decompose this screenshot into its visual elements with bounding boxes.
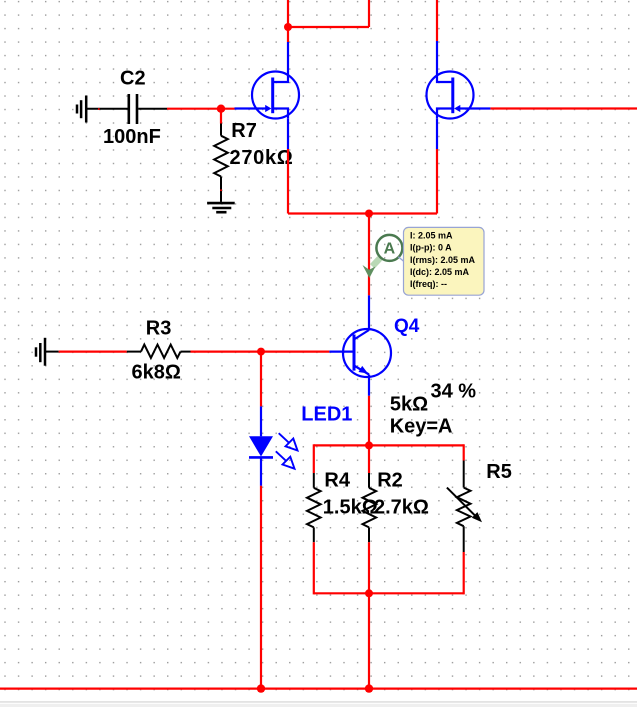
wire: red segment below junction feeding R7 (220, 109, 222, 124)
tooltip probe readout box (404, 227, 485, 295)
svg-text:R2: R2 (377, 469, 403, 491)
resistor R3 (127, 345, 191, 358)
wire: top-right vertical red drop at x=369 (368, 0, 370, 27)
junction at (261,351.6) (257, 348, 265, 356)
diode LED1 (249, 436, 273, 456)
wire: blue collector wire into Q4 (368, 295, 370, 330)
svg-text:C2: C2 (120, 68, 146, 90)
resistor R7 (214, 124, 228, 202)
wire: horizontal red rail joining both sources (288, 212, 437, 214)
capacitor C2 (129, 94, 137, 124)
node: tiny red pin marker on R7 ground stem (220, 189, 222, 191)
wire: top-left vertical red drop to node at (288,27.5) (287, 0, 289, 27)
junction at (288,27.5) (284, 23, 292, 31)
wire: blue cathode wire of LED1 (260, 457, 262, 485)
ground (below R7) (207, 203, 235, 212)
pin: Q4 emitter arrow (359, 366, 369, 374)
tooltip callout pointer (398, 257, 404, 262)
junction at (369,594) (365, 589, 373, 597)
junction at (221,108.7) (217, 105, 225, 113)
wire: blue anode wire of LED1 (260, 406, 262, 436)
svg-text:Key=A: Key=A (390, 415, 453, 437)
svg-text:Q4: Q4 (394, 316, 420, 337)
window edge strip at bottom (0, 701, 637, 702)
svg-text:2.7kΩ: 2.7kΩ (374, 497, 429, 519)
op: right JFET transistor (mirrored) (427, 72, 491, 119)
wire: red wire from left JFET source down to bottom rail (287, 149, 289, 214)
wire: red wire from emitter down to R-box top rail (368, 396, 370, 445)
wire: blue drain wire of left JFET (287, 42, 289, 72)
svg-text:I(freq): --: I(freq): -- (410, 279, 447, 289)
svg-text:LED1: LED1 (301, 403, 352, 425)
svg-text:R4: R4 (324, 469, 350, 491)
ground (input, left of R3) (36, 338, 45, 366)
wire: blue source wire of left JFET going down (287, 119, 289, 149)
wire: red top lead of R2 branch (368, 445, 370, 473)
wire: blue drain wire of right JFET (436, 41, 438, 72)
wire: red wire from base node down to LED1 (260, 352, 262, 407)
wire: bottom horizontal rail (0, 687, 637, 689)
svg-text:I(dc): 2.05 mA: I(dc): 2.05 mA (410, 267, 470, 277)
wire: red bottom lead of R5 branch (463, 552, 465, 594)
wire: red wire from ground to R3 (59, 351, 127, 353)
wire: red wire from node to Q4 base (261, 351, 329, 353)
wire: red wire from right JFET gate to right edge (490, 107, 637, 109)
wire: red wire from right JFET source down to rail (436, 149, 438, 214)
wire: red bottom lead of R4 branch (313, 542, 315, 594)
wire: R-box bottom rail (314, 592, 464, 594)
pin: R5 wiper arrow head (472, 512, 482, 522)
svg-text:R5: R5 (486, 461, 512, 483)
wire: red wire from R3 to base node (191, 351, 262, 353)
junction at (369,444.9) (365, 441, 373, 449)
wire: R-box top rail (314, 444, 464, 446)
svg-text:R3: R3 (146, 318, 172, 340)
LED1 light arrow 2 (276, 451, 295, 468)
wire: red top lead of R5 branch (463, 444, 465, 460)
wire: red wire from C2 to gate node (167, 108, 235, 110)
potentiometer R5 (447, 461, 478, 553)
svg-text:6k8Ω: 6k8Ω (132, 361, 181, 383)
resistor R4 (307, 473, 321, 542)
junction at (369,688) (365, 684, 373, 692)
junction at (261,688) (257, 684, 265, 692)
wire: red top lead of R4 branch (313, 444, 315, 473)
svg-text:I(p-p): 0 A: I(p-p): 0 A (410, 243, 452, 253)
svg-text:100nF: 100nF (103, 126, 161, 148)
probe current probe (A) (363, 235, 403, 278)
wire: black lead from R3 ground (45, 351, 59, 353)
junction at (369,213.5) (365, 210, 373, 218)
wire: red wire from R-box down to bottom rail (368, 593, 370, 688)
wire: red bottom lead of R2 branch (368, 542, 370, 593)
svg-text:5kΩ: 5kΩ (390, 394, 428, 416)
resistor R2 (363, 473, 377, 542)
wire: blue source wire of right JFET going down (436, 119, 438, 149)
wire: red vertical drop to right JFET drain at x=437 (436, 0, 438, 41)
node: tiny red pin marker on ground lead (98, 108, 100, 110)
svg-text:I: 2.05 mA: I: 2.05 mA (410, 231, 453, 241)
wire: red wire down from rail to Q4 collector area (368, 214, 370, 296)
svg-text:A: A (384, 241, 396, 258)
wire: black lead from input ground to C2 left plate (87, 108, 128, 110)
tooltip text lines (410, 231, 476, 289)
wire: black lead from C2 right plate (138, 108, 167, 110)
svg-text:R7: R7 (231, 120, 257, 142)
wire: red segment from junction down toward left JFET drain (287, 27, 289, 42)
LED1 light arrow 1 (279, 433, 298, 450)
pin: left JFET gate arrow (265, 105, 271, 112)
transistor Q4 (343, 329, 391, 377)
wire: top horizontal red segment connecting the two drops (288, 26, 369, 28)
wire: blue emitter wire below Q4 (368, 375, 370, 396)
op: left JFET transistor (235, 72, 300, 119)
svg-text:I(rms): 2.05 mA: I(rms): 2.05 mA (410, 255, 476, 265)
svg-text:34 %: 34 % (431, 380, 477, 402)
svg-text:270kΩ: 270kΩ (230, 147, 294, 169)
wire: blue base lead wire of Q4 (329, 351, 353, 353)
wire: red wire from LED1 down to bottom rail (260, 486, 262, 689)
ground (input, left of C2) (77, 96, 86, 123)
pin: right JFET gate arrow (454, 105, 460, 112)
